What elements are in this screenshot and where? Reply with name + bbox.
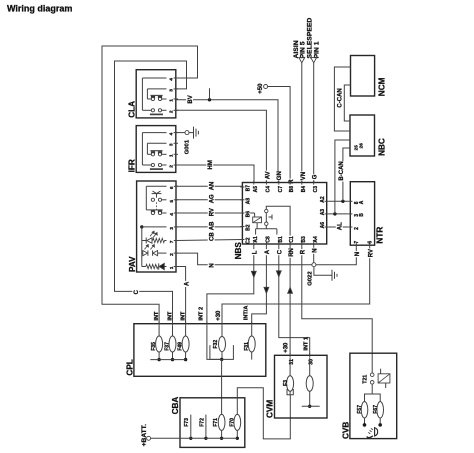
fuse F35 [156,326,163,362]
wire AG PAV to NBS [176,199,242,201]
label F71 [213,418,219,427]
CLA switch contact closed (pins 3-1) [150,95,162,100]
svg-text:B: B [359,213,365,217]
svg-text:B6: B6 [246,211,252,218]
IFR internal wiring [142,133,166,165]
CLA pin ticks [174,78,178,110]
svg-text:NCM: NCM [378,77,387,96]
svg-text:N: N [313,248,319,252]
svg-text:INT 2: INT 2 [199,307,205,321]
label CVB [342,422,351,439]
wire CLA pin3 to CPL INT (left inner loop, colour C) [115,61,187,324]
PAV internal left bus [141,227,143,267]
label CPL [126,359,135,375]
svg-text:CLA: CLA [127,101,136,118]
label AV [264,171,272,181]
svg-text:3: 3 [169,143,175,146]
connector arrow AISIN PIN 5 [299,58,305,63]
control unit NBS box [242,183,326,245]
CVM pin names 31 30 [288,357,314,366]
NBS top pin names [253,186,319,193]
wire AB PAV to NBS [176,226,242,228]
terminal +50 [258,83,268,94]
PAV switch contact closed (pin 4) [150,210,166,215]
svg-text:7: 7 [354,241,360,244]
wire NBS A2 to NTR pin8 [329,200,348,202]
connector arrow SELESPEED PIN 1 [311,58,317,63]
label F3 [283,380,289,386]
arrow on L wire [251,271,256,277]
svg-text:F37: F37 [165,342,171,351]
arrow on A wire [264,287,269,293]
fuse F31 [248,326,255,360]
svg-text:A5: A5 [253,186,259,193]
arrow on C wire [276,271,281,277]
svg-text:+30: +30 [284,342,290,353]
svg-text:CB: CB [209,232,215,241]
svg-text:GN: GN [277,171,283,180]
svg-text:F35: F35 [151,342,157,351]
svg-text:RV: RV [369,249,375,257]
wire SELESPEED PIN1 to NBS C3 (G) [313,63,315,183]
wire C from NBS B1 to CVM INT 1 [279,246,310,355]
fuse F32 [219,326,226,361]
CVM internal node bar [302,405,320,408]
wire HM from IFR pin2 to NBS A5 [176,165,254,183]
CLA internal wiring [142,78,166,110]
NBS internal output bracket [256,229,277,235]
fuse box CPL [134,324,266,377]
label F35 [151,342,157,351]
relay box CVM [275,355,328,418]
label F73 [183,416,190,428]
svg-text:+30: +30 [216,310,222,321]
fuse F49 [182,326,189,362]
wire AN PAV to NBS [176,185,242,187]
wire RN from NBS C1 to CVM pin31 [289,246,291,355]
svg-text:AB: AB [209,221,215,230]
wire CLA pin4 to CPL INT (left outer loop) [102,46,198,324]
svg-text:B4: B4 [301,186,307,193]
CPL top pin ticks [159,322,252,326]
label C on loop wire [132,289,140,295]
svg-text:CPL: CPL [126,359,135,375]
fuse F3 [287,357,294,395]
CPL INT2 internal wire [207,326,222,360]
svg-text:A: A [359,200,365,204]
wire A from PAV pin1 to CPL INT [176,267,186,324]
label C below NBS [276,249,284,255]
svg-text:2: 2 [354,227,360,230]
NBS left pin ticks [240,187,244,240]
label INT/A [243,306,249,321]
svg-text:G022: G022 [308,271,314,286]
svg-text:A: A [265,249,271,254]
label T21 [363,375,369,384]
label C-CAN [337,88,343,107]
label G [311,174,319,180]
label CB [208,232,216,242]
relay T21 contact [370,373,374,384]
label AG [208,194,216,204]
svg-text:INT 1: INT 1 [304,337,310,351]
label RV at NTR [367,249,375,259]
svg-text:A2: A2 [320,196,326,203]
svg-text:B-CAN: B-CAN [339,161,345,180]
svg-text:4: 4 [169,213,175,216]
svg-text:AG: AG [209,194,215,203]
svg-text:RN: RN [289,248,295,257]
svg-text:T21: T21 [363,375,369,384]
label F57 [357,405,363,414]
label NBC [377,138,386,156]
NBS bottom pin names [253,236,319,243]
svg-text:F71: F71 [213,418,219,427]
label F49 [178,342,184,351]
svg-text:C: C [134,289,140,294]
svg-text:B2: B2 [246,224,252,231]
svg-text:VN: VN [301,172,307,180]
PAV node junction pin3 [140,225,166,228]
label NTR [375,227,384,244]
svg-text:CVB: CVB [342,422,351,439]
svg-text:4: 4 [169,78,175,81]
svg-text:F67: F67 [373,405,379,414]
fuse position F72 [204,415,207,440]
switch unit PAV box [137,181,176,272]
svg-text:F73: F73 [184,418,190,427]
fuse F71 [218,414,225,440]
label F70 [230,418,236,427]
label BV [186,95,194,105]
PAV resistor and diode (pin 1) [142,263,167,269]
label NCM [378,77,387,96]
svg-text:3: 3 [169,227,175,230]
CPL internal bus [150,359,185,361]
CBA internal bus [151,437,238,439]
fuse box CBA [180,398,245,448]
label NBS [234,242,243,260]
svg-text:PAV: PAV [128,256,137,272]
IFR switch contact closed (pins 3-1) [150,151,162,156]
svg-text:INT: INT [181,311,187,321]
svg-text:IFR: IFR [127,159,136,172]
fuse F37 [169,326,176,362]
NBS internal relay coil [250,213,261,229]
label G022 [308,271,314,286]
label RV [208,208,216,218]
CLA pin numbers [169,78,175,113]
arrow on RN wire (up) [288,287,293,293]
svg-text:1: 1 [169,99,175,102]
NTR pin names [354,200,374,243]
ground G001 from IFR pin4 [176,127,199,139]
splice junction on BV wire [208,88,211,101]
junction on A2 wire [341,200,344,203]
fog lamp load icon [367,428,378,438]
svg-text:C-CAN: C-CAN [337,88,343,107]
svg-text:6: 6 [169,186,175,189]
svg-text:4: 4 [169,132,175,135]
svg-text:HM: HM [208,160,214,169]
svg-text:B8: B8 [289,186,295,193]
PAV pin ticks [174,186,178,266]
CVM fuse on pin 30 [306,357,313,406]
NTR left pin ticks [348,201,352,227]
junction on A3 wire [333,212,336,215]
wire +50 to NBS B8 (R) [268,87,291,183]
label GN [275,171,283,181]
NBS right pin names [320,196,326,228]
svg-text:+50: +50 [258,83,264,94]
connector IFR box [136,126,176,173]
CPL pin labels INT INT INT INT 2 [154,307,205,321]
svg-text:1: 1 [169,266,175,269]
PAV LED with resistor (pin 7) [142,231,167,243]
wire +30 CPL to NTR pin6 (RV) [222,247,370,323]
label AN [208,182,216,192]
IFR switch contact open (pins 4-2) [150,163,163,169]
label R below NBS [299,249,307,255]
svg-text:F3: F3 [283,380,289,386]
svg-text:NTR: NTR [375,227,384,244]
svg-text:AN: AN [209,182,215,191]
relay T21 coil [378,369,390,388]
label +30 at CVM [282,341,290,354]
label A on PAV wire [183,281,191,287]
PAV twin LEDs (pin 2) [142,245,167,256]
svg-text:CVM: CVM [266,400,275,418]
wire CBA F70 to CVM F3 [237,388,290,439]
svg-text:2: 2 [169,110,175,113]
label AB [208,221,216,231]
svg-text:C8: C8 [266,236,272,243]
svg-text:G001: G001 [184,139,190,154]
label AL [336,222,344,232]
F3 socket bracket [287,389,293,395]
label HM [206,160,214,170]
svg-text:C: C [278,249,284,254]
svg-text:B7: B7 [246,185,252,192]
T21 output split [365,384,381,402]
NBS bottom pin ticks [254,242,314,246]
fuse F57 [361,402,368,427]
ground G022 [314,267,337,281]
svg-text:A4: A4 [313,236,319,243]
svg-text:1: 1 [169,154,175,157]
svg-text:C7: C7 [278,186,284,193]
label N on PAV wire [208,263,216,269]
wire N from NBS A4 to splice [313,246,315,263]
svg-text:7: 7 [169,240,175,243]
label CBA [171,397,180,415]
svg-text:2: 2 [169,165,175,168]
svg-text:C4: C4 [266,186,272,193]
control unit NTR box [350,182,374,246]
NTR bottom pin ticks [356,243,369,247]
fuse F70 [234,414,241,440]
svg-text:B3: B3 [301,236,307,243]
svg-text:BV: BV [188,95,194,103]
wire N splice to NTR pin7 [316,247,356,264]
terminal +BATT [147,436,151,440]
label CLA [127,101,136,118]
PAV pressure switch actuator [152,191,162,198]
label F67 [373,405,379,414]
svg-text:A8: A8 [246,198,252,205]
PAV switch contact (pin 5) [151,198,166,201]
fuse F67 [377,402,384,427]
svg-text:F70: F70 [230,418,236,427]
F32 socket bracket [210,345,234,359]
label F37 [165,342,171,351]
svg-text:F32: F32 [213,340,219,349]
svg-text:RV: RV [209,208,215,216]
PAV mechanical link dashed [156,202,158,210]
title text [7,4,72,14]
svg-text:A: A [184,281,190,286]
CVM top pin ticks [290,353,310,357]
svg-text:N: N [209,263,215,267]
svg-text:L: L [253,250,259,254]
svg-text:NBC: NBC [377,138,386,156]
svg-text:N: N [355,252,361,256]
label G001 [184,139,190,154]
label +30 at CPL [214,309,222,322]
svg-text:A3: A3 [320,209,326,216]
svg-text:2: 2 [169,253,175,256]
svg-text:INT: INT [168,311,174,321]
PAV internal wire pin6 to switch [146,186,166,210]
svg-text:INT/A: INT/A [243,306,249,321]
wire AISIN PIN5 to NBS B4 (VN) [301,63,303,183]
svg-text:F57: F57 [357,405,363,414]
label AISIN [293,40,300,58]
svg-text:C3: C3 [313,186,319,193]
splice node to G022 [312,263,316,267]
wire A from NBS C8 to CPL INT/A [252,246,267,324]
svg-text:B1: B1 [278,236,284,243]
NBS right pin ticks [325,201,329,227]
label R on +50 wire [287,179,295,185]
wire NBS A3 to NTR pin3 [329,213,348,215]
label CVM [266,400,275,418]
fuse box CVB [350,353,397,438]
label PIN 5 [300,41,307,58]
PAV pin numbers [169,186,175,269]
control unit NBC box [350,115,375,156]
svg-text:3: 3 [169,89,175,92]
label N below NBS [311,248,319,254]
svg-text:CBA: CBA [171,397,180,415]
svg-text:G: G [313,174,319,179]
NBC pin names [353,143,363,151]
NBS internal relay contact [265,206,291,235]
svg-text:NBS: NBS [234,242,243,260]
svg-text:C2: C2 [246,237,252,244]
svg-text:R: R [301,249,307,254]
svg-text:F72: F72 [199,418,205,427]
IFR pin ticks [174,133,178,165]
wire CB PAV to NBS [176,240,242,241]
svg-text:26: 26 [358,143,363,149]
label F72 [198,416,205,428]
wire N from PAV pin2 to splice [176,253,312,265]
label N at NTR [354,251,362,257]
wire AV from CLA pin2 to NBS C4 [176,110,267,182]
wire NBS A6 to NTR pin2 (AL) [329,226,348,228]
label B-CAN [337,161,345,182]
IFR pin numbers [169,132,175,167]
wire BV from CLA pin1 to NBS C7 (GN) [176,100,278,183]
control unit NCM box [351,56,375,97]
wire R from NBS B3 to CVB [302,246,372,373]
label PAV [128,256,137,272]
svg-text:6: 6 [368,241,374,244]
label A below NBS [264,249,272,255]
svg-text:Wiring diagram: Wiring diagram [7,4,72,14]
wire CPL F32 to CBA F71 [221,359,223,414]
CLA switch contact open (pins 4-2) [150,109,163,115]
label RN [287,248,295,258]
connector CLA box [136,70,176,118]
svg-text:F49: F49 [178,342,184,351]
svg-text:A6: A6 [320,222,326,229]
svg-text:PIN 1: PIN 1 [313,41,320,58]
svg-text:F31: F31 [244,342,250,351]
wire RV PAV to NBS [176,212,242,214]
label F31 [244,342,250,351]
label INT 1 [304,337,310,351]
svg-text:+BATT.: +BATT. [141,424,148,446]
label VN [299,172,307,182]
svg-text:AL: AL [338,222,344,230]
label SELESPEED [307,18,314,59]
fuse position F73 [189,415,192,440]
svg-text:5: 5 [169,200,175,203]
label +BATT. [141,424,148,446]
NBS left pin names [246,185,252,244]
svg-text:AV: AV [265,171,271,179]
label F32 [213,340,219,349]
wire L from NBS A1 to CPL INT 2 [207,246,254,324]
svg-text:C1: C1 [289,236,295,243]
label IFR [127,159,136,172]
label PIN 1 [313,41,320,58]
C-CAN bus wires [334,67,350,131]
NBS top pin ticks [254,180,314,184]
svg-text:INT: INT [154,311,160,321]
B-CAN bus wires [335,140,350,214]
svg-text:A1: A1 [253,236,259,243]
label L [251,249,259,255]
